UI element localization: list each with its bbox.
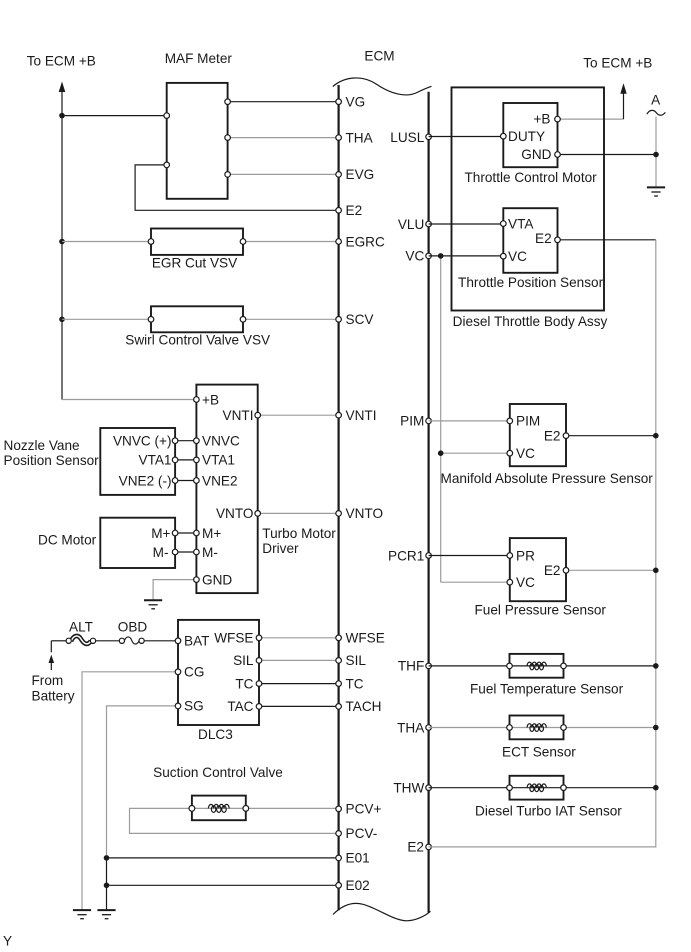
wire +B rail arrow (left) — [59, 82, 66, 93]
wire TMD GND — [153, 580, 196, 600]
wire TCM +B to arrow — [558, 118, 624, 120]
pin ECT right — [561, 725, 567, 731]
wire NVPS VNVC stub — [175, 440, 196, 442]
wire LUSL to DUTY — [429, 136, 504, 138]
junction E02 — [104, 883, 110, 889]
Diesel Turbo IAT Sensor box — [510, 776, 564, 800]
wire PCR1 to FPS PR — [429, 555, 510, 557]
pin MAP E2 — [563, 433, 569, 439]
pin MAF THA — [225, 135, 231, 141]
Diesel Throttle Body Assy box — [452, 87, 605, 310]
svg-text:Turbo Motor: Turbo Motor — [262, 526, 336, 541]
ground SG/E01/E02 — [97, 910, 115, 919]
pin ECM THF — [426, 663, 432, 669]
wire VC branch vertical — [440, 256, 442, 582]
pin ECM VC — [426, 253, 432, 259]
wire THA right — [564, 727, 656, 729]
svg-text:To ECM +B: To ECM +B — [27, 54, 96, 69]
svg-text:VC: VC — [508, 249, 527, 264]
pin TPS VC — [501, 253, 507, 259]
svg-text:TACH: TACH — [346, 699, 382, 714]
Swirl Control Valve VSV box — [151, 306, 243, 332]
pin ECM E01 — [336, 855, 342, 861]
junction GND/A — [653, 152, 659, 158]
wire FPS E2 to rail — [566, 569, 656, 571]
svg-text:Fuel Pressure Sensor: Fuel Pressure Sensor — [475, 603, 607, 618]
pin NVPS VNVC — [172, 438, 178, 444]
svg-text:DC Motor: DC Motor — [38, 533, 97, 548]
pin SCV left — [148, 317, 154, 323]
svg-text:VC: VC — [516, 575, 535, 590]
svg-text:To ECM +B: To ECM +B — [583, 56, 652, 71]
svg-text:SG: SG — [184, 699, 204, 714]
pin valve left — [189, 806, 195, 812]
pin MAP PIM — [507, 418, 513, 424]
DC Motor box — [100, 518, 175, 568]
pin ECM WFSE — [336, 635, 342, 641]
Fuel Pressure Sensor box — [510, 538, 566, 601]
wire E02 to ECM — [107, 884, 339, 886]
junction VC branch — [438, 253, 444, 259]
svg-text:E2: E2 — [346, 203, 363, 218]
svg-text:Throttle Position Sensor: Throttle Position Sensor — [458, 275, 604, 290]
junction THA/E2 rail — [653, 725, 659, 731]
wire DLC3 TAC to ECM TACH — [259, 705, 339, 707]
pin ECM VNTO — [336, 511, 342, 517]
ECM bottom wave — [333, 903, 431, 920]
svg-text:Position Sensor: Position Sensor — [4, 453, 100, 468]
wire +B rail to MAF — [62, 115, 167, 117]
svg-text:DLC3: DLC3 — [198, 727, 233, 742]
pin ECM VG — [336, 99, 342, 105]
svg-text:EGR Cut VSV: EGR Cut VSV — [152, 255, 237, 270]
svg-text:Y: Y — [3, 934, 12, 949]
pin ECM EGRC — [336, 239, 342, 245]
svg-text:VNE2 (-): VNE2 (-) — [119, 473, 172, 488]
pin valve right — [243, 806, 249, 812]
svg-text:E02: E02 — [346, 878, 370, 893]
EGR Cut VSV box — [151, 229, 243, 255]
wire DLC3 WFSE to ECM — [259, 637, 339, 639]
Fuel Temperature Sensor box — [510, 654, 564, 678]
MAF Meter box — [167, 83, 228, 199]
pin ECM SCV — [336, 317, 342, 323]
pin TCM GND — [555, 152, 561, 158]
svg-text:Battery: Battery — [32, 688, 75, 703]
wire through ECT — [510, 727, 564, 729]
pin MAP VC — [507, 450, 513, 456]
svg-text:E2: E2 — [544, 563, 561, 578]
wire EGR left — [62, 241, 151, 243]
wire TCM GND to ground — [558, 154, 657, 156]
pin TMD GND — [194, 577, 200, 583]
svg-text:ECT Sensor: ECT Sensor — [502, 744, 576, 759]
pin DLC3 TC — [256, 681, 262, 687]
pin EGR left — [148, 239, 154, 245]
pin MAF left bottom — [164, 162, 170, 168]
svg-text:ALT: ALT — [69, 620, 93, 635]
svg-text:Diesel Turbo IAT Sensor: Diesel Turbo IAT Sensor — [475, 803, 622, 818]
Turbo Motor Driver box — [196, 385, 257, 593]
wire VNTO to ECM — [258, 512, 339, 514]
junction E01 — [104, 855, 110, 861]
pin TPS VTA — [501, 221, 507, 227]
pin TMD VNTO — [255, 511, 261, 517]
pin TMD VNVC — [194, 438, 200, 444]
pin ECM E2 right — [426, 844, 432, 850]
junction +B/MAF — [59, 113, 65, 119]
wire from battery stub — [50, 641, 52, 653]
node A break symbol — [647, 110, 666, 115]
pin TMD VNE2 — [194, 478, 200, 484]
pin ECM VNTI — [336, 412, 342, 418]
svg-text:VNTI: VNTI — [223, 408, 254, 423]
pin THF right — [561, 663, 567, 669]
pin FPS E2 — [563, 568, 569, 574]
wire E2 rail vertical — [655, 240, 657, 847]
wire through valve — [192, 807, 246, 809]
wire TPS E2 to E2 rail — [558, 239, 656, 241]
pin ECM PCV+ — [336, 806, 342, 812]
svg-text:Swirl Control Valve VSV: Swirl Control Valve VSV — [125, 333, 270, 348]
pin ECM SIL — [336, 658, 342, 664]
wire battery to ALT fuse — [51, 640, 66, 642]
pin ECT left — [507, 725, 513, 731]
wire DC motor M+ stub — [175, 532, 196, 534]
Suction Control Valve box — [192, 796, 246, 821]
svg-text:THF: THF — [398, 659, 424, 674]
wire VC branch to MAP VC — [441, 452, 510, 454]
pin ECM E2 — [336, 208, 342, 214]
pin DLC3 SG — [175, 703, 181, 709]
svg-text:LUSL: LUSL — [390, 130, 424, 145]
svg-text:MAF Meter: MAF Meter — [165, 51, 233, 66]
svg-text:VLU: VLU — [398, 217, 424, 232]
svg-text:M+: M+ — [202, 526, 221, 541]
svg-text:GND: GND — [521, 147, 551, 162]
svg-text:Driver: Driver — [262, 541, 299, 556]
wire MAP E2 to rail — [566, 435, 656, 437]
pin FPS VC — [507, 579, 513, 585]
pin ECM PCR1 — [426, 553, 432, 559]
pin NVPS VTA1 — [172, 457, 178, 463]
pin DLC3 CG — [175, 669, 181, 675]
svg-text:WFSE: WFSE — [346, 631, 385, 646]
svg-text:SCV: SCV — [346, 312, 374, 327]
wire through IAT — [510, 787, 564, 789]
svg-text:VG: VG — [346, 95, 366, 110]
fuse OBD — [124, 637, 139, 644]
wire SCV to ECM SCV — [243, 318, 339, 320]
svg-text:VNTO: VNTO — [346, 506, 384, 521]
wire PCV+ to ECM — [246, 807, 339, 809]
pin DC M+ — [172, 530, 178, 536]
svg-text:Throttle Control Motor: Throttle Control Motor — [464, 170, 597, 185]
pin ECM TACH — [336, 704, 342, 710]
svg-text:VTA1: VTA1 — [139, 453, 172, 468]
wire THF left — [429, 665, 510, 667]
junction THF/E2 rail — [653, 663, 659, 669]
svg-text:PCR1: PCR1 — [388, 548, 424, 563]
svg-text:PIM: PIM — [516, 414, 540, 429]
Throttle Position Sensor box — [503, 208, 557, 273]
ground A — [647, 187, 665, 196]
wire E2 bottom to rail — [429, 845, 656, 848]
Nozzle Vane Position Sensor box — [100, 428, 175, 495]
svg-text:THW: THW — [393, 781, 424, 796]
junction THW/E2 rail — [653, 785, 659, 791]
fusible link ALT — [71, 636, 91, 644]
ECM top wave — [333, 78, 432, 95]
pin DC M- — [172, 549, 178, 555]
wire EGR to ECM EGRC — [243, 241, 339, 243]
wire NVPS VTA1 stub — [175, 459, 196, 461]
wire E01 to ECM — [107, 857, 339, 859]
DLC3 box — [178, 620, 259, 725]
svg-text:THA: THA — [346, 130, 374, 145]
svg-text:EVG: EVG — [346, 167, 375, 182]
svg-text:Diesel Throttle Body Assy: Diesel Throttle Body Assy — [453, 314, 608, 329]
svg-text:SIL: SIL — [233, 653, 254, 668]
svg-text:E2: E2 — [407, 840, 424, 855]
wire OBD to DLC3 BAT — [144, 640, 178, 642]
pin TMD +B — [194, 397, 200, 403]
coil suction control valve — [208, 804, 229, 812]
wire THW right — [564, 787, 656, 789]
svg-text:VTA: VTA — [508, 217, 534, 232]
wire VNTI to ECM — [258, 414, 339, 416]
wire NVPS VNE2 stub — [175, 480, 196, 482]
svg-text:Suction Control Valve: Suction Control Valve — [153, 765, 283, 780]
pin ECM PCV- — [336, 831, 342, 837]
junction MAP E2 — [653, 433, 659, 439]
pin ECM EVG — [336, 172, 342, 178]
svg-text:VNTO: VNTO — [216, 506, 254, 521]
wire THW left — [429, 787, 510, 789]
svg-text:WFSE: WFSE — [214, 631, 253, 646]
pin TCM +B — [555, 116, 561, 122]
wire DLC3 SIL to ECM — [259, 659, 339, 661]
svg-text:E2: E2 — [535, 231, 552, 246]
svg-text:EGRC: EGRC — [346, 234, 385, 249]
pin TMD M+ — [194, 530, 200, 536]
wire A line — [655, 117, 657, 187]
ground CG — [73, 910, 91, 919]
svg-text:VNVC (+): VNVC (+) — [113, 434, 172, 449]
arrow from battery — [49, 655, 55, 663]
pin ECM THA — [336, 135, 342, 141]
wire through THF — [510, 665, 564, 667]
pin TMD VNTI — [255, 412, 261, 418]
svg-text:From: From — [32, 673, 64, 688]
svg-text:+B: +B — [202, 392, 219, 407]
pin DLC3 BAT — [175, 638, 181, 644]
svg-text:THA: THA — [397, 720, 425, 735]
svg-text:VNVC: VNVC — [202, 434, 240, 449]
wire VC branch to FPS VC — [441, 581, 510, 583]
svg-text:M+: M+ — [151, 526, 170, 541]
wire DLC3 SG down — [107, 706, 179, 858]
junction FPS E2 — [653, 568, 659, 574]
pin TCM DUTY — [501, 133, 507, 139]
svg-text:CG: CG — [184, 665, 204, 680]
pin ECM THA2 — [426, 725, 432, 731]
wire MAF E2 to ECM — [135, 165, 339, 210]
pin TMD M- — [194, 549, 200, 555]
wire THF right — [564, 665, 656, 667]
wire DC motor M- stub — [175, 551, 196, 553]
coil diesel turbo IAT sensor — [527, 784, 546, 792]
ground TMD — [144, 600, 162, 609]
wire MAF EVG to ECM — [228, 173, 339, 175]
wire DLC3 TC to ECM — [259, 683, 339, 685]
pin DLC3 TAC — [256, 704, 262, 710]
svg-text:VC: VC — [405, 249, 424, 264]
Throttle Control Motor box — [503, 103, 557, 167]
svg-text:VTA1: VTA1 — [202, 453, 235, 468]
pin ECM THW — [426, 785, 432, 791]
svg-text:Fuel Temperature Sensor: Fuel Temperature Sensor — [470, 682, 624, 697]
svg-text:GND: GND — [202, 572, 232, 587]
svg-text:ECM: ECM — [364, 49, 394, 64]
pin NVPS VNE2 — [172, 478, 178, 484]
pin IAT right — [561, 785, 567, 791]
junction +B/SCV — [59, 317, 65, 323]
wire DLC3 CG to ground — [82, 672, 178, 910]
svg-text:E01: E01 — [346, 851, 370, 866]
svg-text:Nozzle Vane: Nozzle Vane — [4, 438, 80, 453]
junction VC/MAP — [438, 450, 444, 456]
wire E01/E02 to ground — [106, 858, 108, 910]
pin ECM TC — [336, 681, 342, 687]
pin SCV right — [240, 317, 246, 323]
pin MAF EVG — [225, 172, 231, 178]
pin ECM LUSL — [426, 134, 432, 140]
wire SCV left — [62, 318, 151, 320]
svg-text:TC: TC — [235, 676, 253, 691]
ECT Sensor box — [510, 716, 564, 740]
wire +B rail vertical — [61, 91, 63, 400]
svg-text:PCV-: PCV- — [346, 826, 378, 841]
svg-text:OBD: OBD — [118, 620, 148, 635]
svg-text:TC: TC — [346, 676, 364, 691]
wire MAF THA to ECM — [228, 137, 339, 139]
svg-text:PR: PR — [516, 548, 535, 563]
svg-text:SIL: SIL — [346, 653, 367, 668]
pin ECM E02 — [336, 883, 342, 889]
pin TPS E2 — [555, 237, 561, 243]
svg-text:BAT: BAT — [184, 634, 209, 649]
svg-text:PCV+: PCV+ — [346, 802, 382, 817]
pin DLC3 SIL — [256, 658, 262, 664]
pin MAF left top — [164, 113, 170, 119]
wire MAF VG to ECM — [228, 101, 339, 103]
pin IAT left — [507, 785, 513, 791]
wire PIM to MAP — [429, 420, 510, 422]
pin DLC3 WFSE — [256, 635, 262, 641]
svg-text:A: A — [651, 93, 661, 108]
pin FPS PR — [507, 553, 513, 559]
svg-text:DUTY: DUTY — [508, 129, 545, 144]
svg-text:E2: E2 — [544, 429, 561, 444]
svg-text:TAC: TAC — [227, 699, 253, 714]
wire ALT to OBD — [95, 640, 119, 642]
junction +B/EGRC — [59, 239, 65, 245]
pin EGR right — [240, 239, 246, 245]
wire THA left — [429, 727, 510, 729]
wire VLU to VTA — [429, 223, 504, 225]
coil ECT sensor — [527, 724, 546, 732]
svg-text:PIM: PIM — [400, 414, 424, 429]
pin TMD VTA1 — [194, 457, 200, 463]
svg-text:VC: VC — [516, 446, 535, 461]
svg-text:Manifold Absolute Pressure Sen: Manifold Absolute Pressure Sensor — [441, 471, 654, 486]
wire PCV- to ECM — [130, 808, 339, 833]
wire VC to TPS VC — [429, 255, 504, 257]
coil fuel temperature sensor — [527, 662, 546, 670]
pin MAF VG — [225, 99, 231, 105]
wire arrow to ECM +B (right) — [623, 93, 625, 120]
svg-text:M-: M- — [153, 545, 169, 560]
pin THF left — [507, 663, 513, 669]
ECM left line — [338, 85, 340, 910]
svg-text:VNTI: VNTI — [346, 408, 377, 423]
ECM right line — [428, 92, 430, 913]
svg-text:+B: +B — [533, 112, 550, 127]
Manifold Absolute Pressure Sensor box — [510, 404, 566, 466]
svg-text:M-: M- — [202, 545, 218, 560]
pin ECM PIM — [426, 418, 432, 424]
wire +B to Turbo Motor Driver — [62, 399, 196, 401]
pin ECM VLU — [426, 221, 432, 227]
svg-text:VNE2: VNE2 — [202, 473, 238, 488]
